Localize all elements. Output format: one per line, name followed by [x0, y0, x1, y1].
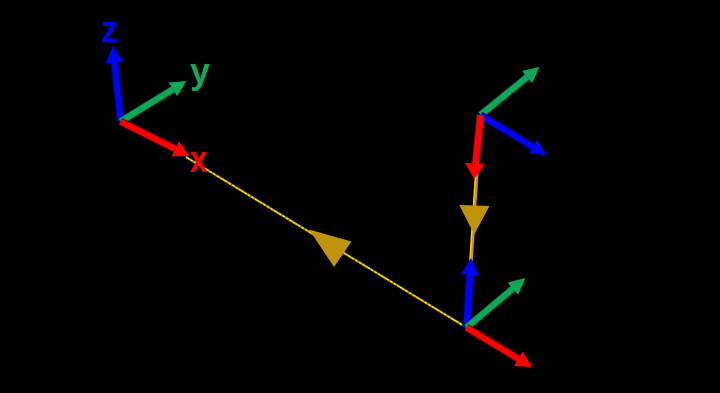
svg-text:z: z — [101, 9, 118, 52]
svg-text:x: x — [190, 139, 208, 181]
svg-text:y: y — [190, 51, 210, 92]
